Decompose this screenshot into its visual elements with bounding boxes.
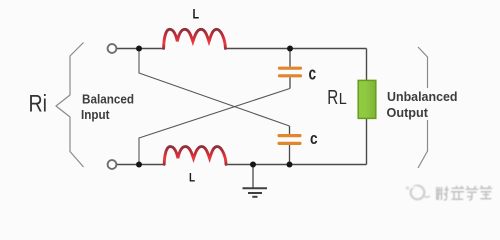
brace right (unbalanced side) [418, 47, 428, 168]
node top capacitor junction [287, 46, 293, 52]
svg-text:L: L [189, 173, 195, 185]
svg-text:Input: Input [81, 107, 110, 122]
wire cross diagonal from bottom-left node to top capacitor [139, 89, 290, 165]
svg-text:c: c [309, 63, 317, 83]
inductor L top [164, 29, 226, 48]
wire top capacitor stub [289, 49, 291, 89]
wire bottom capacitor stub [289, 126, 291, 165]
wire right branch [366, 49, 368, 165]
svg-text:c: c [310, 129, 318, 148]
terminal input top [108, 44, 117, 53]
node top-left junction [136, 46, 142, 52]
node bottom capacitor junction [287, 162, 293, 168]
wire cross diagonal from top-left node to bottom capacitor [139, 49, 290, 127]
svg-text:Ri: Ri [29, 91, 48, 118]
watermark logo [406, 186, 430, 200]
wire ground stub [252, 165, 254, 188]
inductor L bottom [164, 147, 226, 165]
svg-text:L: L [193, 6, 200, 21]
capacitor C top plate 1 [278, 67, 302, 70]
capacitor C bottom plate 2 [278, 142, 302, 145]
svg-text:Output: Output [387, 105, 429, 120]
capacitor C bottom plate 1 [278, 134, 302, 137]
label Unbalanced Output (white backing masks brace) [384, 88, 462, 120]
brace left (balanced side) [56, 43, 84, 168]
svg-text:Unbalanced: Unbalanced [387, 89, 458, 104]
node ground junction [250, 162, 256, 168]
wire top rail [117, 48, 367, 50]
wire bottom rail [117, 164, 367, 166]
capacitor C top plate 2 [278, 74, 302, 77]
ground [243, 188, 268, 197]
node bottom-left junction [136, 162, 142, 168]
resistor RL green body [358, 80, 376, 118]
svg-text:Balanced: Balanced [82, 92, 134, 107]
svg-text:L: L [339, 91, 347, 108]
terminal input bottom [108, 160, 117, 169]
svg-text:R: R [327, 87, 338, 109]
